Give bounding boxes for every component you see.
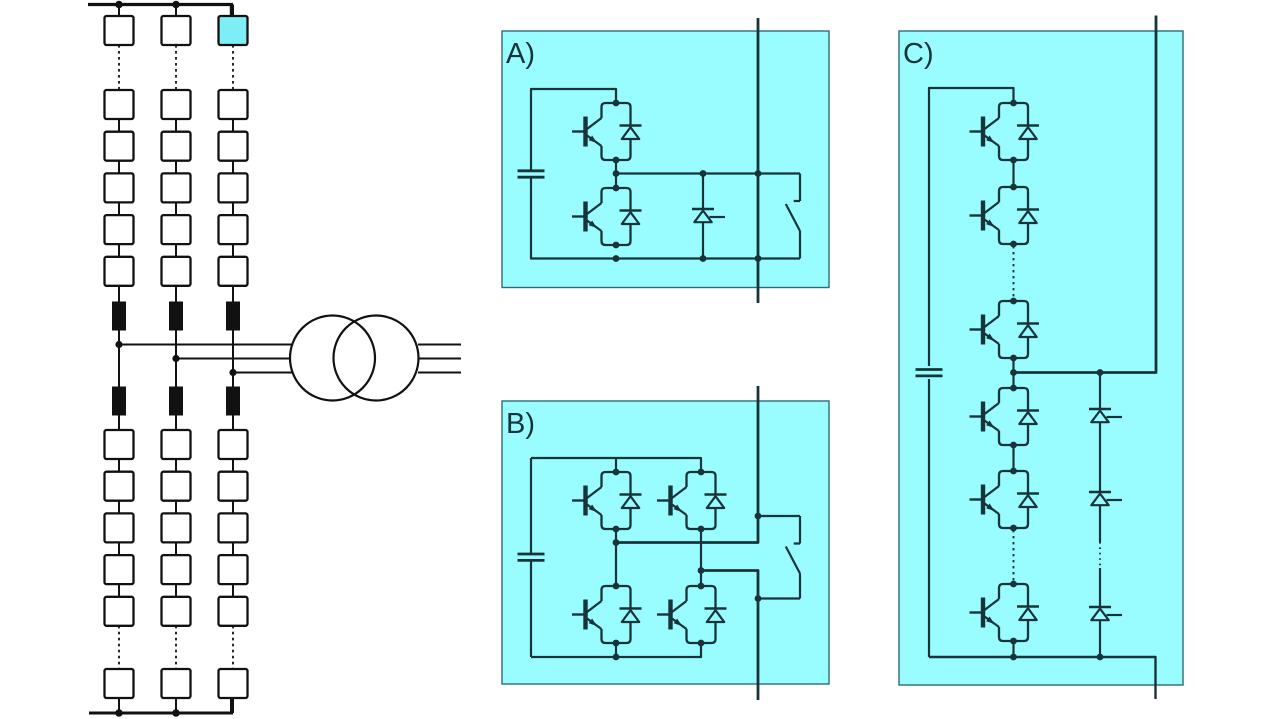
wire C dots-th3 xyxy=(1099,568,1101,607)
capacitor C (panel C) xyxy=(916,370,943,376)
inductor upper arm phase-b xyxy=(169,302,183,331)
wire AC node to lower inductor phase-b xyxy=(175,359,177,387)
wire phase-a upper arm seg2 xyxy=(118,161,120,174)
submodule SMn phase-a lower xyxy=(105,669,134,698)
wire phase-c lower arm seg3 xyxy=(232,542,234,555)
inductor lower arm phase-c xyxy=(226,387,240,416)
wire AC node to lower inductor phase-c xyxy=(232,373,234,387)
igbt cell 5 (panel C) xyxy=(970,468,1040,532)
wire phase-c lower arm seg4 xyxy=(232,584,234,597)
wire phase-a line to transformer xyxy=(119,344,335,346)
submodule box phase-c upper r2 xyxy=(219,90,248,119)
svg-text:B): B) xyxy=(506,408,535,440)
submodule SM1 (highlighted) phase-c upper arm xyxy=(219,16,248,45)
thyristor chain Th1 (panel C) xyxy=(1089,409,1122,422)
wire phase-c lower arm seg2 xyxy=(232,501,234,514)
wire A thyristor branch top xyxy=(702,174,704,210)
wire phase-c upper arm seg3 xyxy=(232,202,234,215)
submodule box phase-a lower r5 xyxy=(105,597,134,626)
igbt T3 cell (panel B lower-left) xyxy=(572,583,642,647)
wire phase-a lower arm seg4 xyxy=(118,584,120,597)
wire C th1-th2 xyxy=(1099,422,1101,492)
wire phase-b line to transformer xyxy=(176,358,335,360)
submodule box phase-a lower r3 xyxy=(105,513,134,542)
wire B bottom rail xyxy=(531,643,701,657)
node C thyristor chain top xyxy=(1097,369,1104,376)
igbt T1 cell (panel B upper-left) xyxy=(572,469,642,533)
wire C bottom rail and exit xyxy=(929,657,1156,699)
wire phase-b upper arm seg4 xyxy=(175,244,177,257)
submodule box phase-a upper r4 xyxy=(105,173,134,202)
wire B cap bottom xyxy=(530,562,532,658)
node B switch bottom xyxy=(755,595,762,602)
wire B right leg mid xyxy=(700,529,702,586)
wire dotted continuation phase-c lower xyxy=(232,626,234,669)
igbt T1 with diode D1 (panel A upper) xyxy=(572,100,642,164)
wire phase-a upper arm seg3 xyxy=(118,202,120,215)
wire C thyristor chain feed xyxy=(1099,373,1101,410)
node A arm top xyxy=(755,170,762,177)
submodule box phase-a upper r5 xyxy=(105,215,134,244)
node A arm bottom xyxy=(755,255,762,262)
inductor lower arm phase-b xyxy=(169,387,183,416)
wire B left leg mid xyxy=(615,529,617,586)
wire bus stub phase-c xyxy=(232,5,234,17)
switch bypass breaker (panel B) xyxy=(758,516,800,599)
igbt cell 6 (panel C) xyxy=(970,581,1040,645)
wire phase-a upper arm seg1 xyxy=(118,119,120,132)
node C bottom thyristor junction xyxy=(1097,654,1104,661)
label A) xyxy=(506,38,535,70)
submodule box phase-c upper r3 xyxy=(219,132,248,161)
node B switch top xyxy=(755,513,762,520)
node bottom bus phase-a xyxy=(115,709,123,717)
node A thyristor top xyxy=(700,170,707,177)
submodule box phase-b lower r2 xyxy=(162,472,191,501)
submodule box phase-b lower r3 xyxy=(162,513,191,542)
wire C dotted upper xyxy=(1013,246,1015,299)
inductor lower arm phase-a xyxy=(112,387,126,416)
wire arm conductor upper (panel B) xyxy=(616,386,758,543)
wire C cell6-bottom xyxy=(1012,641,1014,657)
wire phase-c upper arm seg2 xyxy=(232,161,234,174)
wire AC node to lower inductor phase-a xyxy=(118,345,120,387)
capacitor C (panel B) xyxy=(518,554,545,560)
node top bus / phase-a string junction xyxy=(115,1,123,9)
wire grid line 3 xyxy=(418,372,461,374)
submodule box phase-c lower r1 xyxy=(219,430,248,459)
node C chain midpoint xyxy=(1010,369,1017,376)
wire inductor to AC node phase-a xyxy=(118,331,120,345)
node AC phase-a xyxy=(115,341,122,348)
submodule SM1 phase-b upper arm xyxy=(162,16,191,45)
submodule box phase-a upper r2 xyxy=(105,90,134,119)
submodule box phase-b lower r5 xyxy=(162,597,191,626)
wire arm conductor top (panel C) xyxy=(1014,16,1157,373)
submodule box phase-a lower r2 xyxy=(105,472,134,501)
igbt cell 3 (panel C) xyxy=(970,298,1040,362)
capacitor C (panel A) xyxy=(518,171,545,177)
submodule box phase-b upper r5 xyxy=(162,215,191,244)
wire B top rail xyxy=(531,458,701,472)
submodule SM1 phase-a upper arm xyxy=(105,16,134,45)
label C) xyxy=(903,38,934,70)
wire A output line xyxy=(616,172,800,174)
submodule SMn phase-b lower xyxy=(162,669,191,698)
submodule box phase-c lower r4 xyxy=(219,555,248,584)
panel B background xyxy=(502,401,829,684)
wire inductor to AC node phase-b xyxy=(175,331,177,359)
svg-text:C): C) xyxy=(903,38,934,70)
wire A capacitor bottom connection xyxy=(531,178,800,259)
wire A midpoint xyxy=(615,160,617,188)
submodule box phase-c lower r3 xyxy=(219,513,248,542)
wire bottom stub phase-c xyxy=(232,698,234,713)
wire C chain dash-dot xyxy=(1099,542,1101,568)
wire top DC bus xyxy=(88,5,233,17)
svg-text:A): A) xyxy=(506,38,535,70)
node B right AC terminal xyxy=(698,567,705,574)
submodule box phase-c upper r4 xyxy=(219,173,248,202)
igbt cell 2 (panel C) xyxy=(970,184,1040,248)
node A output midpoint xyxy=(613,170,620,177)
node AC phase-b xyxy=(172,355,179,362)
wire phase-b upper arm seg1 xyxy=(175,119,177,132)
node A bottom cell junction xyxy=(613,255,620,262)
node B bottom rail junction xyxy=(613,654,620,661)
wire phase-b lower arm seg3 xyxy=(175,542,177,555)
wire C cell4-cell5 xyxy=(1012,445,1014,471)
wire inductor to boxes phase-a lower xyxy=(118,416,120,431)
wire B bottom stub left leg xyxy=(615,643,617,657)
wire dotted continuation phase-b upper xyxy=(175,45,177,90)
submodule box phase-a upper r3 xyxy=(105,132,134,161)
wire bus stub phase-a xyxy=(118,5,120,17)
igbt cell 1 (panel C) xyxy=(970,100,1040,164)
wire phase-a lower arm seg1 xyxy=(118,459,120,472)
submodule box phase-c upper r5 xyxy=(219,215,248,244)
thyristor bypass (panel A) xyxy=(692,209,725,222)
submodule box phase-b upper r2 xyxy=(162,90,191,119)
wire dotted continuation phase-c upper xyxy=(232,45,234,90)
wire B switch feed xyxy=(758,515,800,517)
wire C cell1-cell2 xyxy=(1012,160,1014,187)
wire inductor to boxes phase-b lower xyxy=(175,416,177,431)
wire to arm inductor phase-c upper xyxy=(232,286,234,302)
wire C th2-dots xyxy=(1099,505,1101,542)
wire to arm inductor phase-b upper xyxy=(175,286,177,302)
igbt T4 cell (panel B lower-right) xyxy=(657,583,727,647)
igbt cell 4 (panel C) xyxy=(970,385,1040,449)
wire C cap bottom xyxy=(928,379,930,657)
node C bottom chain junction xyxy=(1010,654,1017,661)
submodule box phase-c upper r6 xyxy=(219,257,248,286)
inductor upper arm phase-c xyxy=(226,302,240,331)
panel C background xyxy=(899,31,1183,685)
submodule box phase-a upper r6 xyxy=(105,257,134,286)
wire bottom stub phase-a xyxy=(118,698,120,713)
wire arm conductor through A xyxy=(757,18,760,303)
submodule box phase-b upper r4 xyxy=(162,173,191,202)
wire phase-c lower arm seg1 xyxy=(232,459,234,472)
wire dotted continuation phase-a upper xyxy=(118,45,120,90)
wire C cell3-mid xyxy=(1012,358,1014,388)
submodule box phase-b upper r3 xyxy=(162,132,191,161)
wire inductor to boxes phase-c lower xyxy=(232,416,234,431)
wire phase-c upper arm seg1 xyxy=(232,119,234,132)
wire B cap top xyxy=(530,458,532,553)
wire A capacitor top connection xyxy=(531,89,616,170)
wire dotted continuation phase-b lower xyxy=(175,626,177,669)
wire inductor to AC node phase-c xyxy=(232,331,234,373)
submodule SMn phase-c lower xyxy=(219,669,248,698)
wire phase-b lower arm seg2 xyxy=(175,501,177,514)
wire phase-b lower arm seg4 xyxy=(175,584,177,597)
node AC phase-c xyxy=(229,369,236,376)
wire phase-c upper arm seg4 xyxy=(232,244,234,257)
submodule box phase-c lower r2 xyxy=(219,472,248,501)
wire B top stub left leg xyxy=(615,458,617,472)
wire phase-c line to transformer xyxy=(233,372,335,374)
submodule box phase-a lower r1 xyxy=(105,430,134,459)
igbt T2 cell (panel B upper-right) xyxy=(657,469,727,533)
submodule box phase-c lower r5 xyxy=(219,597,248,626)
wire dotted continuation phase-a lower xyxy=(118,626,120,669)
submodule box phase-b upper r6 xyxy=(162,257,191,286)
igbt T2 with diode D2 (panel A lower) xyxy=(572,185,642,249)
wire C top connection xyxy=(929,88,1014,366)
wire C dotted lower xyxy=(1013,530,1015,582)
wire to arm inductor phase-a upper xyxy=(118,286,120,302)
panel A background xyxy=(502,31,829,288)
wire bus stub phase-b xyxy=(175,5,177,17)
inductor upper arm phase-a xyxy=(112,302,126,331)
wire phase-a lower arm seg3 xyxy=(118,542,120,555)
wire A thyristor branch bottom xyxy=(702,222,704,258)
thyristor chain Th3 (panel C) xyxy=(1089,607,1122,620)
wire grid line 2 xyxy=(419,358,462,360)
wire bottom DC bus xyxy=(89,698,233,713)
node B left AC terminal xyxy=(613,539,620,546)
wire grid line 1 xyxy=(418,344,461,346)
submodule box phase-b lower r4 xyxy=(162,555,191,584)
node A thyristor bottom xyxy=(700,255,707,262)
label B) xyxy=(506,408,535,440)
transformer T1 (two overlapping windings) xyxy=(290,316,419,401)
submodule box phase-a lower r4 xyxy=(105,555,134,584)
wire phase-b lower arm seg1 xyxy=(175,459,177,472)
node top bus / phase-b string junction xyxy=(172,1,180,9)
wire phase-a lower arm seg2 xyxy=(118,501,120,514)
wire phase-b upper arm seg3 xyxy=(175,202,177,215)
switch bypass breaker (panel A) xyxy=(786,174,800,259)
submodule box phase-b lower r1 xyxy=(162,430,191,459)
wire bottom stub phase-b xyxy=(175,698,177,713)
wire phase-a upper arm seg4 xyxy=(118,244,120,257)
wire arm conductor lower (panel B) xyxy=(701,571,758,701)
wire C th3-bottom xyxy=(1099,620,1101,657)
thyristor chain Th2 (panel C) xyxy=(1089,492,1122,505)
node bottom bus phase-b xyxy=(172,709,180,717)
wire phase-b upper arm seg2 xyxy=(175,161,177,174)
